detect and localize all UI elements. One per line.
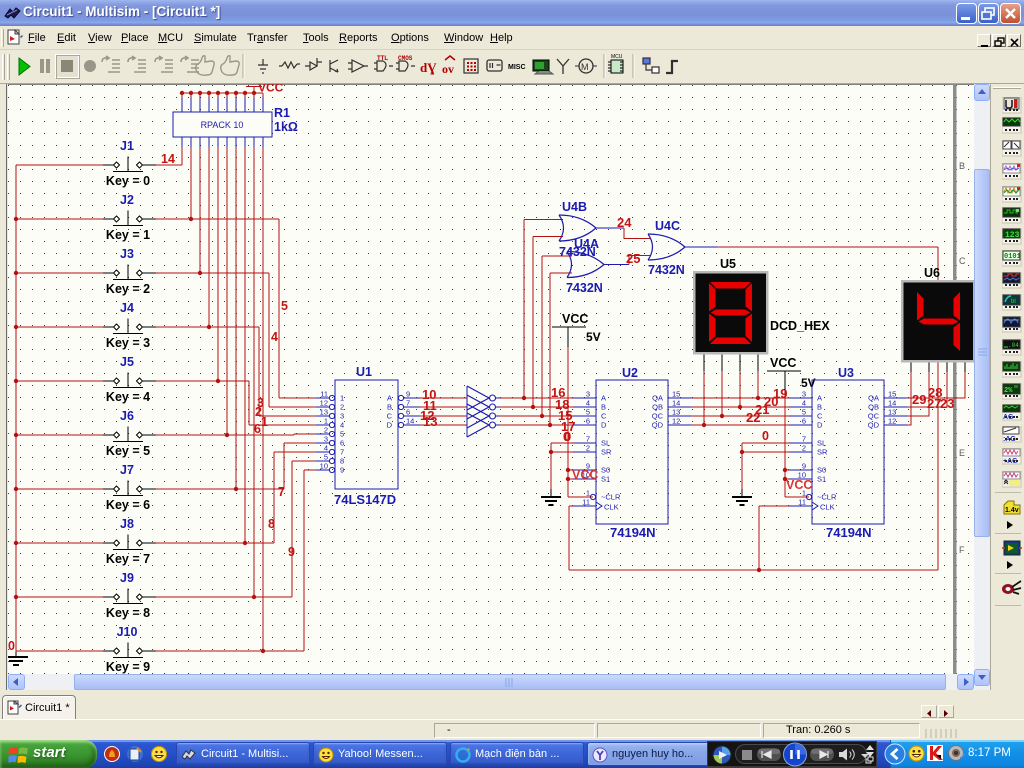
svg-text:U5: U5 [720, 257, 736, 271]
quick launch [104, 746, 170, 763]
svg-text:F: F [959, 545, 965, 555]
node junction branch 1 [522, 396, 526, 400]
svg-text:14: 14 [406, 417, 414, 426]
svg-text:Key = 1: Key = 1 [106, 228, 150, 242]
svg-text:DCD_HEX: DCD_HEX [770, 319, 830, 333]
svg-text:2: 2 [802, 444, 806, 453]
svg-text:0: 0 [8, 639, 15, 653]
node junction U5 pin 2 [720, 414, 724, 418]
svg-text:22: 22 [746, 410, 760, 425]
svg-text:J7: J7 [120, 463, 134, 477]
svg-text:9: 9 [406, 390, 410, 399]
status bar [0, 719, 1024, 740]
switch J7 Key=6 [16, 488, 103, 490]
wire J3 to U1 [156, 272, 269, 274]
svg-text:7: 7 [340, 448, 344, 457]
SL/SR of U2 to ground [551, 442, 573, 444]
svg-text:bl: bl [1011, 299, 1016, 305]
svg-text:J3: J3 [120, 247, 134, 261]
switch J1 Key=0 [16, 164, 103, 166]
wire inverter out row 3 [500, 424, 573, 426]
wire RPACK pin 10 column [262, 147, 264, 651]
wire branch to OR gate input 3 [541, 256, 543, 416]
svg-text:S1: S1 [601, 475, 610, 484]
svg-text:74194N: 74194N [826, 525, 872, 540]
wire RPACK pin 9 column [253, 147, 255, 597]
svg-text:6: 6 [340, 439, 344, 448]
svg-text:U1: U1 [356, 365, 372, 379]
svg-text:8: 8 [268, 517, 275, 531]
svg-text:1kΩ: 1kΩ [274, 120, 298, 134]
toolbar [0, 50, 1024, 84]
svg-text:U4C: U4C [655, 219, 680, 233]
svg-text:U3: U3 [838, 366, 854, 380]
wire U2.QD to U3 [691, 424, 790, 426]
wire RPACK pin 5 column [217, 147, 219, 381]
svg-text:S1: S1 [817, 475, 826, 484]
svg-text:C: C [387, 412, 393, 421]
svg-text:14: 14 [888, 399, 896, 408]
ground under U2 [550, 489, 552, 497]
svg-text:3: 3 [802, 390, 806, 399]
svg-text:1: 1 [261, 415, 268, 429]
svg-text:.04: .04 [1008, 342, 1019, 349]
node junction branch 4 [548, 423, 552, 427]
inverter bank (4 crossed buffers) [466, 386, 468, 437]
switch J4 Key=3 [16, 326, 103, 328]
svg-text:RPACK 10: RPACK 10 [201, 120, 244, 130]
svg-text:6: 6 [406, 408, 410, 417]
svg-text:J8: J8 [120, 517, 134, 531]
svg-text:C: C [601, 412, 607, 421]
svg-text:0: 0 [563, 430, 570, 444]
svg-text:SR: SR [817, 448, 828, 457]
svg-text:29: 29 [912, 392, 926, 407]
svg-text:VCC: VCC [770, 356, 796, 370]
wire J2 to U1 [156, 218, 279, 220]
wire U6 pin 2 [907, 372, 929, 416]
svg-text:11: 11 [582, 498, 590, 507]
node junction branch 2 [531, 405, 535, 409]
svg-text:Key = 4: Key = 4 [106, 390, 150, 404]
svg-text:U2: U2 [622, 366, 638, 380]
svg-text:5V: 5V [586, 330, 601, 344]
svg-text:M: M [581, 62, 589, 72]
svg-text:A: A [601, 394, 606, 403]
wire U6 pin 1 [907, 372, 911, 425]
wire RPACK pin 8 column [244, 147, 246, 543]
wire branch to OR gate input 2 [532, 237, 534, 408]
svg-text:11: 11 [320, 390, 328, 399]
wire U1 output A [420, 397, 467, 399]
svg-text:24: 24 [617, 215, 632, 230]
svg-text:Key = 8: Key = 8 [106, 606, 150, 620]
svg-text:B: B [601, 403, 606, 412]
switch J5 Key=4 [16, 380, 103, 382]
svg-text:74LS147D: 74LS147D [334, 492, 396, 507]
wire branch to OR gate input 1 [523, 220, 525, 399]
svg-text:D: D [601, 421, 607, 430]
svg-text:12: 12 [320, 399, 328, 408]
svg-text:Key = 7: Key = 7 [106, 552, 150, 566]
svg-text:12: 12 [888, 417, 896, 426]
switch J8 Key=7 [16, 542, 103, 544]
switch J10 Key=9 [16, 650, 103, 652]
wire branch to OR gate input 4 [549, 273, 551, 425]
svg-text:QC: QC [652, 412, 664, 421]
svg-text:1: 1 [324, 417, 328, 426]
wire RPACK pin 6 column [226, 147, 228, 435]
svg-text:4: 4 [802, 399, 806, 408]
svg-text:MISC: MISC [508, 64, 526, 71]
ground under U3 [741, 489, 743, 497]
svg-text:dƔ: dƔ [420, 60, 437, 75]
svg-text:4: 4 [340, 421, 344, 430]
left ground bus [15, 165, 17, 652]
wire RPACK pin 2 column [190, 147, 192, 219]
wire U5 pin 1 [703, 353, 705, 371]
svg-text:5: 5 [802, 408, 806, 417]
svg-text:7: 7 [586, 435, 590, 444]
svg-text:7432N: 7432N [566, 281, 603, 295]
wire U5 pin 2 [721, 353, 723, 371]
wire U6 pin 4 [907, 372, 965, 398]
svg-text:J6: J6 [120, 409, 134, 423]
wire U1 output B [420, 406, 467, 408]
start button [0, 740, 97, 768]
svg-text:7: 7 [278, 485, 285, 499]
svg-text:B: B [817, 403, 822, 412]
node junction U5 pin 1 [702, 423, 706, 427]
wire RPACK pin 3 column [199, 147, 201, 273]
svg-text:A: A [387, 394, 392, 403]
svg-text:QA: QA [652, 394, 663, 403]
svg-text:11: 11 [798, 498, 806, 507]
sheet border zone strip [953, 84, 957, 674]
wire J9 to U1 [156, 596, 292, 598]
svg-text:2: 2 [340, 403, 344, 412]
svg-text:5: 5 [324, 453, 328, 462]
node junction branch 3 [540, 414, 544, 418]
or-gate U4C 7432N [648, 234, 653, 260]
svg-text:13: 13 [423, 414, 437, 429]
svg-text:4: 4 [324, 444, 328, 453]
svg-text:QB: QB [868, 403, 879, 412]
svg-text:J10: J10 [117, 625, 138, 639]
svg-text:0101: 0101 [1004, 253, 1021, 261]
svg-text:5: 5 [281, 299, 288, 313]
svg-text:7: 7 [406, 399, 410, 408]
svg-text:1: 1 [586, 489, 590, 498]
menu bar [0, 26, 1024, 50]
switch J2 Key=1 [16, 218, 103, 220]
wire J8 to U1 [156, 542, 274, 544]
node junction U5 pin 3 [738, 405, 742, 409]
wire inverter out row 1 [500, 406, 573, 408]
svg-text:QD: QD [868, 421, 880, 430]
svg-text:3: 3 [324, 435, 328, 444]
svg-text:5V: 5V [801, 376, 816, 390]
media player toolbar [707, 741, 877, 767]
wire U4A out to U4C [604, 264, 629, 266]
svg-text:J4: J4 [120, 301, 134, 315]
svg-text:QD: QD [652, 421, 664, 430]
svg-text:23: 23 [940, 396, 954, 411]
wire J4 to U1 [156, 326, 259, 328]
or-gate U4B 7432N [559, 215, 564, 241]
wire inverter out row 0 [500, 397, 573, 399]
svg-text:1: 1 [340, 394, 344, 403]
svg-text:9: 9 [802, 462, 806, 471]
svg-text:0: 0 [762, 429, 769, 443]
seven-segment display U6 showing 4 [902, 281, 974, 361]
svg-text:QC: QC [868, 412, 880, 421]
VCC symbol above U3 [767, 370, 801, 372]
svg-text:4: 4 [271, 330, 278, 344]
svg-text:C: C [959, 256, 966, 266]
CLK wire U3 [759, 505, 789, 507]
svg-text:TTL: TTL [377, 56, 388, 62]
svg-text:4: 4 [586, 399, 590, 408]
svg-text:VCC: VCC [572, 468, 598, 482]
svg-text:Key = 5: Key = 5 [106, 444, 150, 458]
svg-text:Key = 6: Key = 6 [106, 498, 150, 512]
resistor pack R1 RPACK 10 [181, 97, 183, 112]
node junction J9 [252, 595, 256, 599]
VCC symbol above U2 [552, 326, 586, 328]
node junction J6 [225, 433, 229, 437]
svg-text:7432N: 7432N [648, 263, 685, 277]
node junction U5 pin 4 [756, 396, 760, 400]
svg-text:13: 13 [320, 408, 328, 417]
IC U1 74LS147D priority encoder [335, 380, 398, 489]
wire RPACK pin 7 column [235, 147, 237, 489]
top VCC bus wire [182, 92, 263, 94]
svg-text:C: C [817, 412, 823, 421]
or-gate U4A 7432N [567, 252, 572, 278]
svg-text:SL: SL [601, 439, 610, 448]
wire RPACK pin 4 column [208, 147, 210, 327]
svg-text:6: 6 [802, 417, 806, 426]
svg-text:J1: J1 [120, 139, 134, 153]
svg-text:J5: J5 [120, 355, 134, 369]
svg-text:6: 6 [586, 417, 590, 426]
CLK wire U2 [569, 505, 573, 507]
svg-text:25: 25 [626, 251, 640, 266]
svg-text:QA: QA [868, 394, 879, 403]
svg-text:6: 6 [254, 422, 261, 436]
svg-text:S0: S0 [817, 466, 826, 475]
svg-text:U4B: U4B [562, 200, 587, 214]
svg-text:2: 2 [324, 426, 328, 435]
title bar [0, 0, 1024, 26]
svg-text:B: B [959, 161, 965, 171]
svg-text:2: 2 [586, 444, 590, 453]
svg-text:U6: U6 [924, 266, 940, 280]
horizontal scrollbar [8, 674, 974, 690]
svg-text:Key = 0: Key = 0 [106, 174, 150, 188]
VCC net to S0/S1/CLR of U3 [784, 390, 786, 497]
svg-text:CLK: CLK [820, 503, 835, 512]
svg-text:D: D [387, 421, 393, 430]
svg-text:13: 13 [672, 408, 680, 417]
svg-text:S0: S0 [601, 466, 610, 475]
svg-text:2%: 2% [1004, 387, 1013, 395]
switch J3 Key=2 [16, 272, 103, 274]
svg-text:8: 8 [340, 457, 344, 466]
svg-text:5: 5 [340, 430, 344, 439]
svg-text:Key = 3: Key = 3 [106, 336, 150, 350]
wire U5 pin 3 [739, 353, 741, 371]
svg-text:3: 3 [586, 390, 590, 399]
wire J6 to U1 [156, 434, 294, 436]
wire U2.QB to U3 [691, 406, 790, 408]
svg-text:7: 7 [802, 435, 806, 444]
svg-text:AG: AG [1003, 414, 1014, 421]
svg-text:VCC: VCC [786, 478, 812, 492]
svg-text:SL: SL [817, 439, 826, 448]
svg-text:A: A [817, 394, 822, 403]
node junction J3 [198, 271, 202, 275]
svg-text:J9: J9 [120, 571, 134, 585]
ground (bottom left) [15, 652, 17, 657]
svg-text:1.4v: 1.4v [1005, 507, 1019, 514]
svg-text:D: D [817, 421, 823, 430]
node junction J2 [189, 217, 193, 221]
svg-text:E: E [959, 448, 965, 458]
svg-text:CMOS: CMOS [398, 55, 413, 62]
svg-text:13: 13 [888, 408, 896, 417]
wire U1 output C [420, 415, 467, 417]
wire U2.QA to U3 [691, 397, 790, 399]
svg-text:123: 123 [1005, 231, 1020, 240]
node junction J7 [234, 487, 238, 491]
svg-text:U4A: U4A [574, 237, 599, 251]
svg-text:CLK: CLK [604, 503, 619, 512]
node junction J10 [261, 649, 265, 653]
VCC power symbol (top) [253, 87, 255, 94]
wire J10 to U1 [156, 650, 304, 652]
svg-text:9: 9 [340, 466, 344, 475]
svg-text:10: 10 [320, 462, 328, 471]
svg-text:9: 9 [288, 545, 295, 559]
svg-text:VCC: VCC [562, 312, 588, 326]
switch J6 Key=5 [16, 434, 103, 436]
svg-text:15: 15 [888, 390, 896, 399]
instruments toolbar [990, 84, 1024, 690]
svg-text:~CLR: ~CLR [601, 493, 621, 502]
svg-text:14: 14 [672, 399, 680, 408]
svg-text:B: B [387, 403, 392, 412]
system tray [890, 740, 1024, 768]
node junction J4 [207, 325, 211, 329]
svg-text:MCU: MCU [611, 54, 623, 60]
wire J5 to U1 [156, 380, 249, 382]
IC U3 74194N shift register [812, 380, 884, 524]
node junction J5 [216, 379, 220, 383]
IC U2 74194N shift register [596, 380, 668, 524]
schematic workspace [8, 84, 974, 674]
VCC net to S0/S1/CLR of U2 [567, 347, 569, 497]
wire U5 pin 4 [757, 353, 759, 371]
svg-text:R1: R1 [274, 106, 290, 120]
switch J9 Key=8 [16, 596, 103, 598]
svg-text:Key = 2: Key = 2 [106, 282, 150, 296]
svg-text:12: 12 [672, 417, 680, 426]
wire U4C out / clock feedback [685, 246, 717, 248]
svg-text:SR: SR [601, 448, 612, 457]
taskbar [0, 740, 1024, 768]
svg-text:~CLR: ~CLR [817, 493, 837, 502]
svg-text:74194N: 74194N [610, 525, 656, 540]
vertical scrollbar [974, 84, 990, 690]
wire J7 to U1 [156, 488, 284, 490]
svg-text:3: 3 [340, 412, 344, 421]
wire RPACK pin 1 to J1 [181, 147, 183, 165]
seven-segment display U5 showing 8 [694, 272, 767, 353]
svg-text:ov: ov [442, 62, 454, 76]
sheet tab bar [0, 690, 1024, 719]
wire U4B out to U4C [596, 227, 624, 229]
wire U1 output D [420, 424, 467, 426]
svg-text:Key = 9: Key = 9 [106, 660, 150, 674]
SL/SR of U3 to ground [742, 442, 789, 444]
node junction J8 [243, 541, 247, 545]
svg-text:J2: J2 [120, 193, 134, 207]
svg-text:15: 15 [672, 390, 680, 399]
wire U6 pin 3 [907, 372, 947, 407]
wire U2.QC to U3 [691, 415, 790, 417]
wire inverter out row 2 [500, 415, 573, 417]
svg-text:5: 5 [586, 408, 590, 417]
svg-text:14: 14 [161, 152, 175, 166]
svg-text:QB: QB [652, 403, 663, 412]
